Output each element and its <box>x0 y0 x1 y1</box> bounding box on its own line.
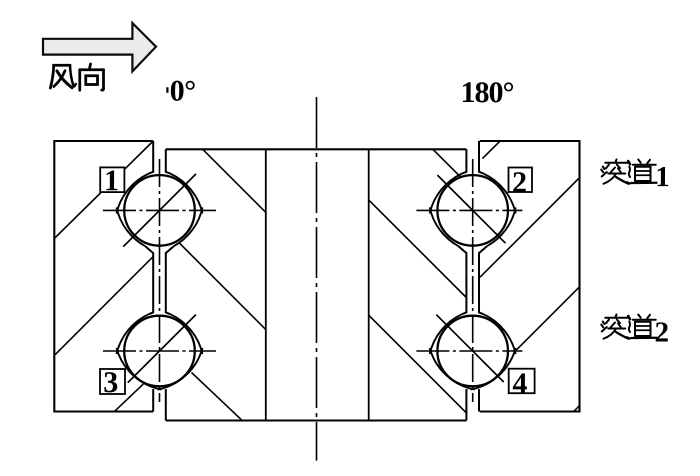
raceway 1 label: char Dao <box>627 160 656 184</box>
label FengXiang (wind direction) char Feng <box>50 65 75 88</box>
hatch line L3 outer left <box>114 384 143 412</box>
outer ring left block outline <box>54 141 153 412</box>
gap edge right column outer side bottom <box>478 389 480 411</box>
label FengXiang char Xiang <box>80 64 104 90</box>
hatch line H1 inner left <box>203 149 266 212</box>
gap edge right column outer side middle <box>479 246 487 314</box>
hatch line R2 outer right <box>480 179 579 278</box>
svg-text:2: 2 <box>512 166 527 199</box>
ball label box 2 <box>509 168 533 193</box>
svg-text:1: 1 <box>655 161 670 193</box>
gap edge right column inner side top <box>462 149 467 173</box>
raceway 2 label: char Gun <box>601 315 628 339</box>
raceway gothic arcs ball 1 <box>117 174 203 247</box>
left ball column center line <box>159 159 161 402</box>
svg-text:2: 2 <box>654 316 669 348</box>
ball 4 <box>437 316 508 387</box>
svg-text:3: 3 <box>103 366 118 399</box>
ball 3 <box>124 316 195 387</box>
right ball column center line <box>472 159 474 402</box>
small tick before 0 degree <box>166 87 168 93</box>
ball 4 contact angle diagonal <box>436 315 503 382</box>
ball 1 horizontal center line <box>103 209 216 211</box>
gap edge right column inner side middle <box>459 246 467 314</box>
hatch line H4 inner left <box>192 373 243 421</box>
raceway 1 label: char Gun <box>601 160 628 184</box>
hatch line R3 outer right <box>514 287 580 353</box>
raceway gothic arcs ball 2 <box>430 174 516 247</box>
gap edge right column inner side bottom <box>465 389 467 420</box>
ball 2 horizontal center line <box>416 209 522 211</box>
ball 2 <box>437 175 508 246</box>
raceway gothic arcs ball 4 <box>430 314 516 389</box>
wind direction arrow <box>43 23 156 71</box>
hatch line L1 outer left <box>55 141 153 238</box>
gap edge left column outer side middle <box>145 246 153 314</box>
hatch line L2 outer left <box>55 257 153 355</box>
ball label box 1 <box>100 167 124 192</box>
ball label box 4 <box>509 369 535 394</box>
raceway gothic arcs ball 3 <box>117 314 203 389</box>
gap edge right column outer side top <box>479 141 484 174</box>
svg-text:4: 4 <box>512 367 527 400</box>
hatch line IR2 inner right <box>369 200 467 298</box>
ball 3 contact angle diagonal <box>128 315 196 383</box>
hatch line R4 outer right bottom corner <box>574 406 580 412</box>
raceway 2 label: char Dao <box>627 315 656 339</box>
hatch line IR1 inner right <box>433 150 461 178</box>
gap edge left column outer side bottom <box>152 389 154 411</box>
ball 3 horizontal center line <box>103 350 216 352</box>
gap edge left column inner side middle <box>166 246 174 314</box>
gap edge left column inner side bottom <box>165 389 167 420</box>
ball 2 contact angle diagonal <box>437 175 505 243</box>
svg-text:1: 1 <box>104 164 119 197</box>
ball 1 <box>124 175 195 246</box>
rotation axis center line <box>316 97 318 461</box>
svg-text:0°: 0° <box>170 75 196 108</box>
svg-text:180°: 180° <box>461 76 514 109</box>
inner ring bottom edge <box>166 419 467 421</box>
ball label box 3 <box>100 369 125 394</box>
hatch line IR3 inner right <box>369 315 467 413</box>
inner ring top edge <box>166 148 467 150</box>
gap edge left column inner side top <box>166 149 171 173</box>
gap edge left column outer side top <box>149 141 154 174</box>
hatch line R1 outer right corner <box>482 141 500 159</box>
inner ring bore edge left <box>265 149 267 420</box>
hatch line H2 inner left <box>179 243 266 330</box>
ball 4 horizontal center line <box>416 350 522 352</box>
outer ring right block outline <box>480 141 580 412</box>
ball 1 contact angle diagonal <box>123 174 196 247</box>
inner ring bore edge right <box>368 149 370 420</box>
